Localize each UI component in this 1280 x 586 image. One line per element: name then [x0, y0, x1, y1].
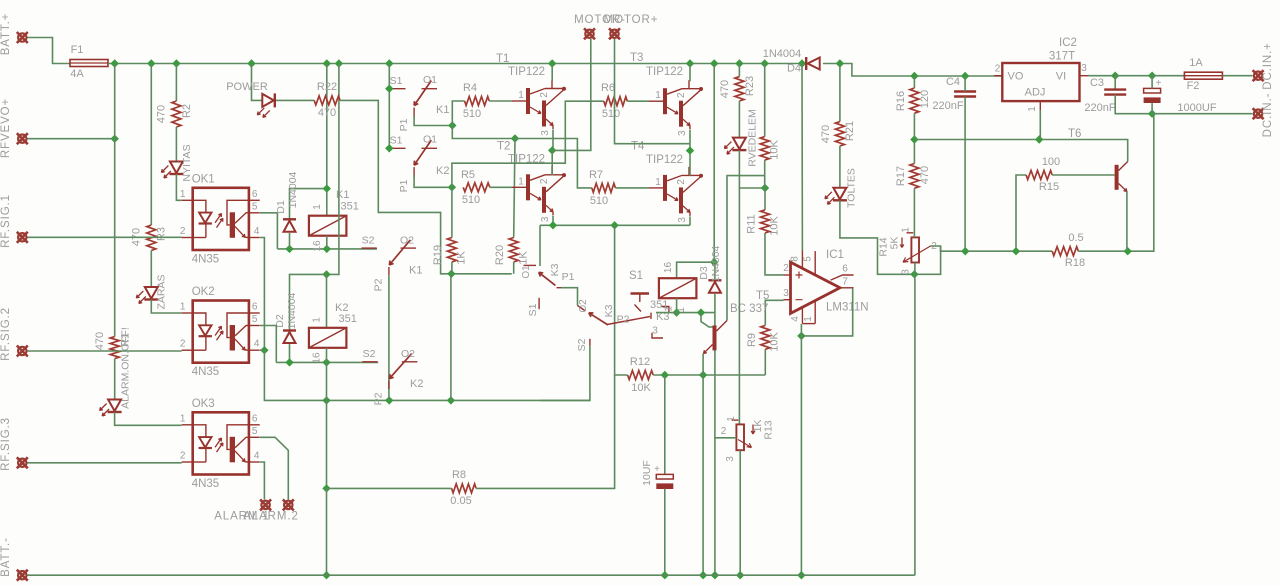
node junction: [147, 59, 155, 67]
wire T5 base: [701, 313, 713, 327]
wire emitter column down to R12: [615, 225, 628, 375]
svg-text:ALARM.2: ALARM.2: [243, 511, 299, 523]
svg-text:O1: O1: [423, 134, 437, 146]
svg-text:T2: T2: [497, 141, 510, 153]
node junction: [661, 371, 669, 379]
svg-text:3: 3: [540, 130, 551, 136]
node junction: [798, 59, 806, 67]
svg-text:2: 2: [995, 64, 1001, 75]
wire rail down to R23: [738, 64, 740, 77]
svg-text:510: 510: [590, 195, 608, 207]
svg-text:5: 5: [252, 314, 258, 325]
wire BATT.+ pad to fuse F1: [28, 38, 71, 64]
svg-text:4: 4: [790, 316, 801, 322]
resistor R16: [910, 88, 919, 113]
transistor T5 (BC337): [713, 325, 717, 350]
capacitor 10UF: [656, 474, 673, 479]
svg-text:TOLTES: TOLTES: [846, 168, 858, 208]
wire contact K1 P1 to node: [414, 116, 452, 126]
svg-text:TIP122: TIP122: [646, 66, 683, 78]
pad MOTOR-: [584, 28, 595, 39]
wire 10UF column: [664, 375, 666, 474]
svg-text:MOTOR+: MOTOR+: [604, 14, 659, 26]
svg-text:0.05: 0.05: [450, 495, 471, 507]
svg-text:S2: S2: [576, 338, 588, 351]
wire rail down to 10K: [764, 64, 766, 137]
node junction: [549, 221, 557, 229]
svg-text:DC.IN.+: DC.IN.+: [1262, 42, 1274, 90]
node junction: [260, 346, 268, 354]
node junction: [285, 358, 293, 366]
svg-text:3: 3: [1081, 63, 1087, 74]
node junction: [910, 135, 918, 143]
svg-text:OK2: OK2: [192, 286, 215, 298]
resistor R11: [761, 210, 770, 233]
fuse F1: [70, 60, 108, 67]
wire OK3 pin4 to ALARM.1: [260, 462, 265, 500]
svg-text:BATT.+: BATT.+: [0, 13, 12, 56]
node junction: [661, 571, 669, 579]
wire R8 line from x=326.5: [327, 487, 452, 489]
diode D2: [283, 329, 296, 331]
svg-text:P1: P1: [398, 179, 410, 192]
svg-text:2: 2: [539, 92, 550, 98]
wire R9 top to IC1 pin3: [765, 300, 783, 325]
svg-text:K1: K1: [409, 265, 422, 277]
resistor R5: [463, 183, 490, 192]
wire R12 to T5/R9 rail: [653, 374, 765, 376]
resistor R2: [172, 101, 181, 127]
wire T6 emitter down to rail: [1126, 192, 1128, 252]
wire K3 S2 down to y400 rail: [540, 346, 590, 401]
svg-text:510: 510: [602, 108, 620, 120]
node junction: [1111, 72, 1119, 80]
node junction: [1148, 72, 1156, 80]
transistor T1 (TIP122 darlington): [496, 53, 566, 136]
node junction: [322, 358, 330, 366]
svg-text:1: 1: [518, 176, 524, 187]
LED NYITAS: [170, 162, 183, 174]
resistor R8: [452, 484, 477, 493]
svg-text:6: 6: [252, 302, 258, 313]
wire ADJ down: [1039, 110, 1041, 140]
resistor R17: [910, 164, 919, 189]
svg-text:S1: S1: [629, 270, 643, 282]
svg-text:470: 470: [820, 125, 832, 143]
svg-text:BATT.-: BATT.-: [0, 537, 12, 577]
svg-text:R23: R23: [744, 76, 756, 96]
svg-text:VI: VI: [1056, 71, 1066, 83]
wire C4 top lead: [964, 76, 966, 92]
svg-text:2: 2: [180, 339, 186, 350]
LED RVEDELEM: [733, 138, 746, 150]
svg-text:470: 470: [94, 332, 106, 350]
optocoupler OK2 (4N35): [180, 286, 260, 378]
wire ADJ line to T6 collector: [914, 140, 1127, 162]
resistor R7: [592, 183, 616, 192]
svg-text:10K: 10K: [769, 140, 781, 160]
svg-text:O1: O1: [521, 265, 532, 279]
wire rail down to POWER LED: [252, 64, 263, 101]
svg-text:D4: D4: [787, 63, 801, 75]
node junction: [686, 59, 694, 67]
wire RVEDELEM down to node/R13: [739, 150, 765, 188]
wire 10UF to ground: [664, 489, 666, 576]
node junction: [323, 245, 331, 253]
svg-text:TIP122: TIP122: [646, 154, 683, 166]
wire top rail D4 to corner: [823, 64, 1002, 77]
wire R21 to TOLTES: [839, 146, 841, 188]
svg-text:5K: 5K: [889, 237, 901, 250]
wire R3 to ZARAS LED: [150, 251, 152, 288]
wire P2 chain down: [388, 275, 390, 400]
node junction: [111, 59, 119, 67]
node junction: [761, 59, 769, 67]
wire R23 to RVEDELEM: [738, 101, 740, 138]
wire IC2 pin3 to C3: [1088, 75, 1115, 77]
svg-text:8: 8: [790, 256, 801, 262]
wire ground rail up to R14 pin3 node: [914, 274, 916, 575]
svg-text:RF.SIG.3: RF.SIG.3: [0, 417, 12, 471]
node junction: [736, 571, 744, 579]
wire node right to R7 riser: [515, 139, 592, 188]
wire R15 left riser: [1016, 175, 1026, 251]
wire D3 cathode lead: [714, 262, 716, 280]
wire IC1 pin7 down: [801, 288, 852, 336]
resistor R6: [604, 97, 628, 106]
svg-text:1N4004: 1N4004: [710, 245, 722, 282]
node junction: [710, 59, 718, 67]
node junction: [961, 247, 969, 255]
svg-text:RFVEVO+: RFVEVO+: [0, 98, 12, 158]
svg-text:6: 6: [252, 189, 258, 200]
svg-text:3: 3: [540, 216, 551, 222]
wire R14 pin2 wiper to C4 column: [931, 246, 966, 251]
wire T1 emitter to T2 collector node: [551, 130, 554, 151]
pushbutton S1: [631, 292, 650, 294]
node junction: [910, 270, 918, 278]
svg-text:P2: P2: [373, 392, 385, 405]
voltage regulator IC2 (317T): [1002, 63, 1079, 101]
svg-text:R19: R19: [432, 245, 444, 265]
relay K2 coil: [309, 328, 347, 348]
pad BATT.-: [17, 570, 28, 581]
wire rail y=250: [965, 250, 1016, 252]
node junction: [322, 571, 330, 579]
fuse F2: [1184, 72, 1222, 79]
wire D1 anode: [289, 233, 291, 249]
svg-text:1: 1: [655, 90, 661, 101]
svg-text:T5: T5: [756, 290, 769, 302]
node junction: [322, 484, 330, 492]
wire RF.SIG.3 to OK3 pin2: [28, 462, 182, 464]
svg-text:K1: K1: [436, 104, 449, 116]
wire chain down to rail y=400: [264, 350, 590, 400]
potentiometer R13: [732, 419, 739, 421]
svg-text:R22: R22: [317, 81, 337, 93]
op-amp IC1 (LM311N): [791, 262, 841, 313]
wire RF.SIG.1 to OK1 pin2: [28, 236, 182, 238]
svg-text:T4: T4: [631, 141, 645, 153]
svg-text:LM311N: LM311N: [826, 302, 869, 314]
svg-text:2: 2: [783, 263, 789, 274]
wire node down to R20: [514, 139, 515, 238]
node junction: [548, 146, 556, 154]
wire C4 bottom to rail y=250: [964, 97, 966, 252]
svg-text:3: 3: [901, 269, 912, 275]
svg-text:1: 1: [518, 90, 524, 101]
wire x=326.5 column down: [326, 362, 328, 488]
contact K2 switch S1/O1/P1: [389, 147, 405, 149]
LED TOLTES: [833, 188, 846, 200]
svg-text:F1: F1: [71, 44, 84, 56]
node junction: [910, 72, 918, 80]
svg-text:S1: S1: [527, 303, 539, 316]
svg-text:3: 3: [783, 288, 789, 299]
svg-text:O2: O2: [578, 299, 589, 313]
svg-text:RF.SIG.1: RF.SIG.1: [0, 194, 12, 248]
pad RFVEVO+: [17, 133, 28, 144]
svg-text:ADJ: ADJ: [1025, 87, 1046, 99]
svg-text:2: 2: [539, 178, 550, 184]
svg-text:2: 2: [721, 426, 727, 437]
capacitor C3: [1104, 90, 1126, 95]
LED ALARM.ON.OFF!: [108, 400, 121, 412]
svg-text:5: 5: [252, 201, 258, 212]
wire node down to R19: [451, 187, 453, 237]
wire T2 collector up: [551, 150, 553, 175]
svg-text:R13: R13: [763, 420, 775, 439]
optocoupler OK1 (4N35): [180, 173, 260, 265]
svg-text:TIP122: TIP122: [508, 66, 545, 78]
svg-text:4N35: 4N35: [192, 366, 220, 378]
wire pushbutton/K3/D3 line: [656, 312, 715, 314]
svg-text:R17: R17: [895, 166, 907, 186]
wire R19 bottom: [451, 262, 453, 274]
node junction: [1148, 110, 1156, 118]
wire R16 to ADJ node: [913, 113, 915, 163]
wire C3 bottom to DC- line: [1115, 95, 1152, 114]
wire top rail F1 to D4: [108, 63, 806, 65]
svg-text:4: 4: [254, 339, 260, 350]
wire R1 to LED: [114, 359, 116, 400]
wire R2 to NYITAS LED: [175, 127, 177, 162]
svg-text:4A: 4A: [70, 68, 84, 80]
resistor R1: [110, 337, 119, 359]
svg-text:ZARAS: ZARAS: [156, 274, 168, 309]
wire T3 emitter to T4 collector node: [689, 130, 691, 176]
wire rail to K1 pin1: [326, 64, 328, 216]
svg-text:K3: K3: [549, 263, 561, 276]
wire K2 pin1: [326, 274, 328, 327]
wire MOTOR- riser: [552, 39, 591, 150]
node junction: [735, 59, 743, 67]
wire node up to R4: [452, 101, 464, 126]
wire row rail D1/K1/S2: [277, 248, 377, 250]
node junction: [797, 571, 805, 579]
wire OK3 pin5 to ALARM.2: [260, 437, 288, 499]
svg-text:+: +: [654, 464, 660, 475]
svg-text:1N4004: 1N4004: [286, 292, 298, 329]
ground rail BATT.-: [28, 574, 915, 576]
wire 1000UF bottom lead: [1151, 103, 1153, 114]
svg-text:F2: F2: [1187, 80, 1200, 92]
svg-text:P2: P2: [617, 314, 630, 326]
node junction: [247, 59, 255, 67]
svg-text:K2: K2: [436, 165, 449, 177]
svg-text:351: 351: [650, 299, 668, 311]
svg-text:T6: T6: [1068, 128, 1081, 140]
transistor T3 (TIP122 darlington): [630, 52, 703, 136]
svg-text:D1: D1: [275, 200, 287, 214]
wire node down to R11: [764, 188, 766, 210]
wire RFVEVO+ to rail column: [28, 138, 115, 140]
wire R6 to T3 base: [627, 100, 649, 102]
wire to fuse F2: [1152, 75, 1184, 77]
svg-text:T3: T3: [630, 52, 643, 64]
resistor R4: [465, 97, 490, 106]
wire OK2 pin4 to chain: [260, 349, 265, 351]
svg-text:3: 3: [677, 130, 688, 136]
svg-text:1: 1: [655, 177, 661, 188]
LED ZARAS: [145, 287, 158, 299]
node junction: [610, 221, 618, 229]
svg-text:0.5: 0.5: [1068, 232, 1083, 244]
pad ALARM.2: [283, 499, 294, 510]
wire K1 pin16: [326, 236, 328, 249]
pad MOTOR+: [609, 28, 620, 39]
wire K3 pin16 line: [677, 262, 715, 278]
svg-text:R9: R9: [746, 333, 758, 347]
node junction: [1035, 135, 1043, 143]
svg-text:R3: R3: [156, 227, 168, 241]
svg-text:R20: R20: [494, 245, 506, 265]
svg-text:470: 470: [156, 105, 168, 123]
resistor R23: [735, 77, 744, 101]
svg-text:10UF: 10UF: [641, 460, 653, 486]
svg-text:R18: R18: [1065, 257, 1085, 269]
wire R5 to T2 base: [490, 186, 512, 188]
wire R20 bottom elbow: [513, 262, 515, 274]
svg-text:470: 470: [318, 107, 336, 119]
pad DC.IN.+: [1253, 70, 1264, 81]
contact K2 lower switch S2/O2/P2: [362, 361, 377, 363]
svg-text:2: 2: [180, 226, 186, 237]
node junction: [323, 59, 331, 67]
wire D2 top line: [290, 274, 327, 330]
wire rail down to contact K1 S1: [388, 64, 390, 149]
contact K1 lower switch S2/O2/P2: [362, 247, 377, 249]
LED POWER: [262, 94, 274, 107]
resistor R12: [628, 371, 654, 380]
wire D2 anode: [289, 344, 291, 362]
svg-text:10K: 10K: [631, 382, 651, 394]
svg-text:3: 3: [725, 456, 736, 462]
svg-text:RVEDELEM: RVEDELEM: [747, 109, 759, 167]
node junction: [323, 184, 331, 192]
pad BATT.+: [17, 32, 28, 43]
svg-text:10K: 10K: [769, 216, 781, 236]
svg-text:10K: 10K: [769, 332, 781, 352]
wire K1 node to R7/R20 node: [452, 126, 515, 139]
wire rail down to K3/D3: [713, 64, 715, 263]
wire R8 right to emitter column: [476, 375, 614, 488]
svg-text:4: 4: [254, 226, 260, 237]
svg-text:K2: K2: [410, 378, 423, 390]
wire RF.SIG.2 to OK2 pin2: [28, 350, 182, 352]
svg-text:TIP122: TIP122: [508, 154, 545, 166]
wire R7 to T4 base: [615, 187, 649, 189]
wire OK1 pin5 down to row rail: [260, 213, 278, 249]
relay K3 coil: [659, 278, 697, 298]
resistor 10K: [760, 137, 769, 161]
resistor R9: [761, 325, 770, 349]
node junction: [1012, 247, 1020, 255]
wire T4 emitter down: [689, 216, 691, 225]
svg-text:T1: T1: [496, 53, 509, 65]
svg-text:1: 1: [180, 302, 186, 313]
node junction: [699, 371, 707, 379]
svg-text:P1: P1: [398, 118, 410, 131]
diode D3: [708, 279, 721, 281]
svg-text:2: 2: [676, 179, 687, 185]
svg-text:D3: D3: [698, 266, 710, 280]
contact K1 switch S1/O1/P1: [389, 88, 405, 90]
wire K3 P1 down to K3 lower O2: [561, 288, 578, 306]
node junction: [172, 59, 180, 67]
wire R9 bottom riser: [764, 349, 766, 375]
potentiometer R14: [907, 232, 914, 234]
svg-text:1000UF: 1000UF: [1177, 102, 1216, 114]
svg-text:3: 3: [677, 217, 688, 223]
wire OK1 pin4 down chain: [260, 238, 265, 351]
svg-text:R7: R7: [589, 169, 603, 181]
node junction: [447, 396, 455, 404]
wire ZARAS to OK2 pin1: [151, 300, 181, 314]
wire DC- line to pad: [1152, 113, 1252, 115]
svg-text:5: 5: [803, 256, 814, 262]
svg-text:6: 6: [252, 413, 258, 424]
svg-text:O2: O2: [400, 235, 414, 247]
wire T5 emitter down: [702, 354, 704, 376]
svg-text:IC1: IC1: [826, 249, 844, 261]
svg-text:220nF: 220nF: [1084, 102, 1115, 114]
svg-text:P1: P1: [562, 271, 575, 283]
node junction: [836, 59, 844, 67]
svg-text:1: 1: [803, 316, 814, 322]
wire row rail D2/K2/S2: [276, 361, 378, 363]
diode D4: [805, 57, 807, 70]
svg-text:OK3: OK3: [192, 398, 215, 410]
wire R13 pin2 to D3 ground column: [715, 437, 737, 439]
svg-text:510: 510: [462, 194, 480, 206]
transistor T2 (TIP122 darlington): [497, 141, 566, 223]
svg-text:K3: K3: [603, 304, 615, 317]
wire R22 right elbow down: [340, 100, 512, 273]
svg-text:O2: O2: [401, 348, 415, 360]
svg-text:R15: R15: [1039, 181, 1059, 193]
svg-text:R11: R11: [746, 214, 758, 233]
pad RF.SIG.1: [17, 232, 28, 243]
svg-text:1: 1: [901, 227, 912, 233]
svg-text:470: 470: [919, 166, 931, 184]
wire C3 top lead: [1114, 76, 1116, 90]
node junction: [548, 59, 556, 67]
wire D1 top to K1 pin1 junction: [290, 189, 327, 220]
svg-text:DC.IN.-: DC.IN.-: [1262, 93, 1274, 138]
wire rail down to R3: [150, 64, 152, 226]
wire R4 to T1 base: [489, 100, 512, 102]
